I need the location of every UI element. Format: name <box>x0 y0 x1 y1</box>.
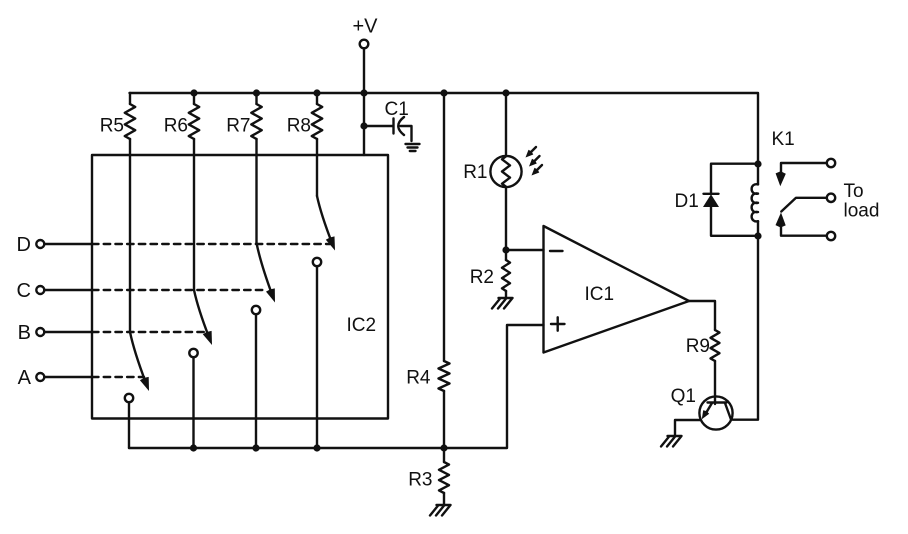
svg-text:R5: R5 <box>100 116 124 137</box>
svg-text:R7: R7 <box>226 116 250 137</box>
svg-text:IC2: IC2 <box>347 315 377 336</box>
svg-text:R3: R3 <box>408 470 432 491</box>
svg-text:Q1: Q1 <box>671 386 696 407</box>
svg-text:R1: R1 <box>463 162 487 183</box>
svg-text:R2: R2 <box>470 267 494 288</box>
svg-text:A: A <box>18 367 32 389</box>
svg-text:R9: R9 <box>686 336 710 357</box>
svg-text:R6: R6 <box>164 116 188 137</box>
svg-text:R4: R4 <box>406 368 431 389</box>
svg-text:C: C <box>17 280 31 302</box>
svg-text:R8: R8 <box>287 116 311 137</box>
svg-text:D: D <box>17 234 31 256</box>
svg-text:+V: +V <box>352 16 378 38</box>
svg-text:B: B <box>18 322 31 344</box>
svg-text:C1: C1 <box>385 99 409 120</box>
svg-text:load: load <box>844 201 880 222</box>
svg-text:K1: K1 <box>772 129 795 150</box>
svg-text:IC1: IC1 <box>585 284 615 305</box>
svg-text:To: To <box>844 181 864 202</box>
svg-text:D1: D1 <box>675 191 699 212</box>
